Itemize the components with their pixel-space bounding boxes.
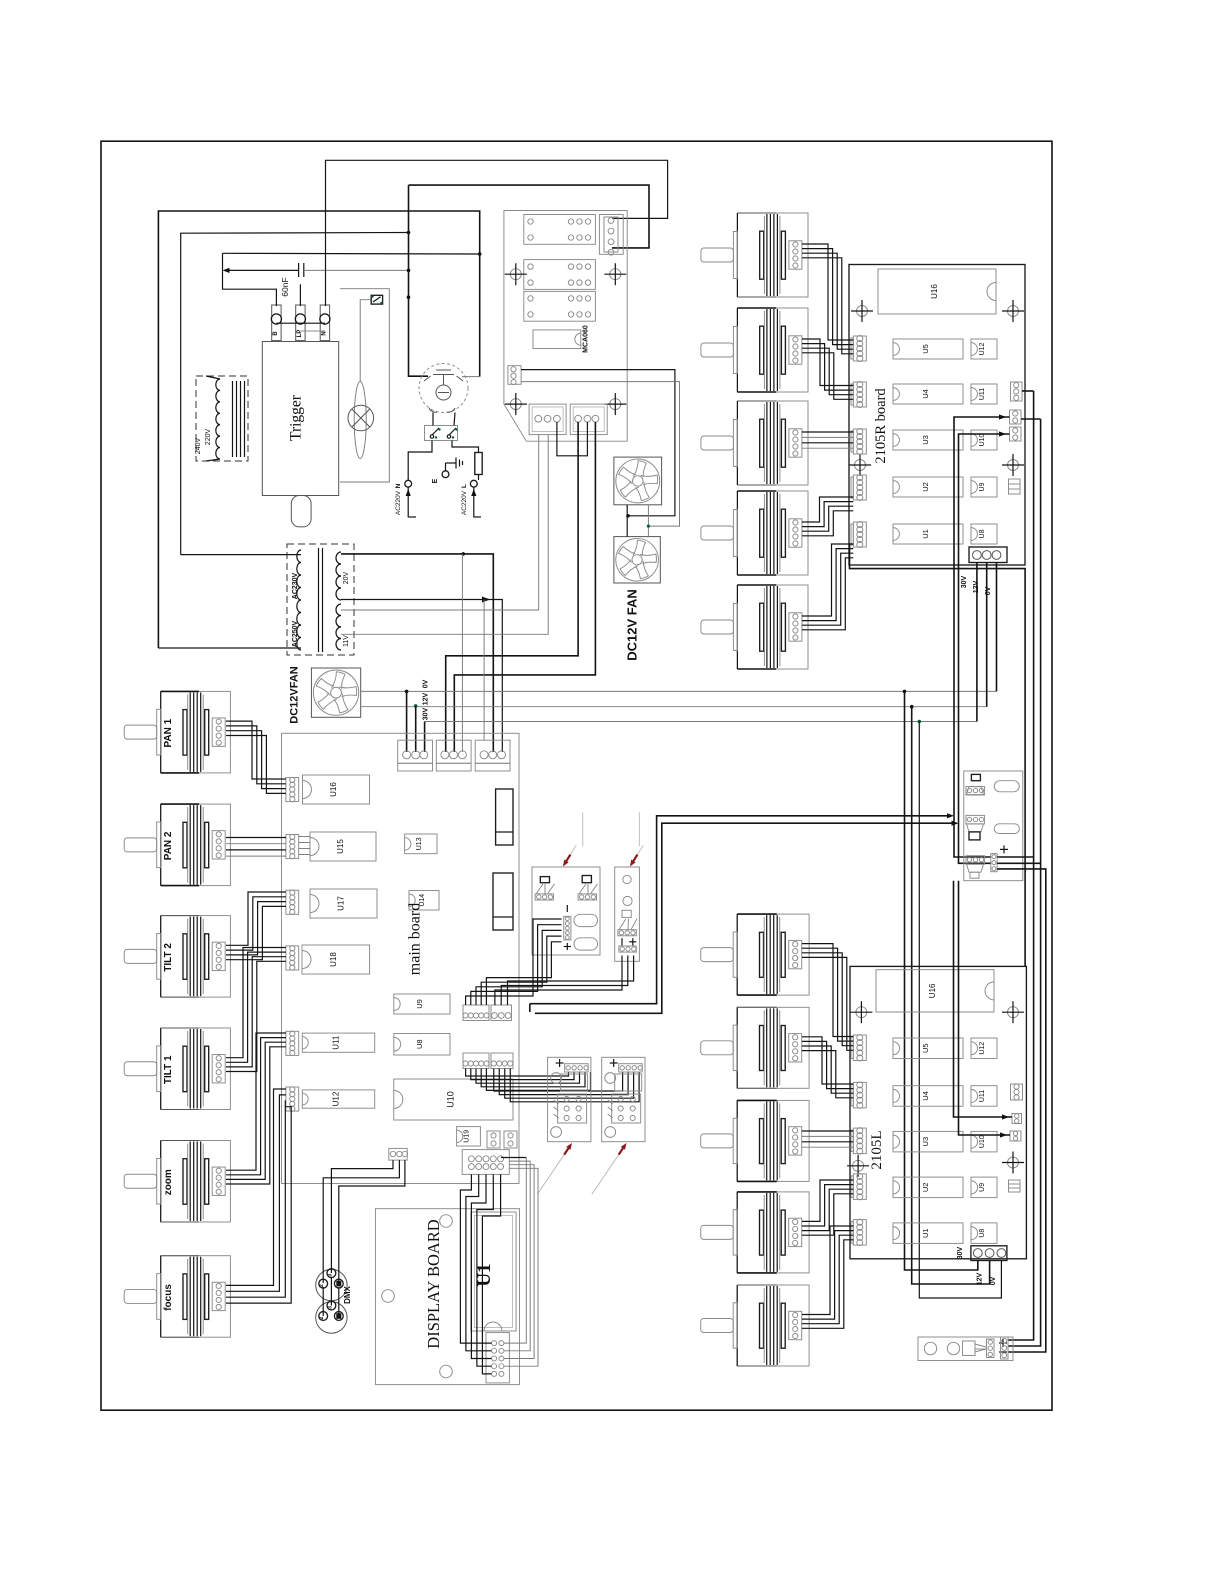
svg-text:2: 2 [319, 1316, 325, 1319]
svg-text:MCA060: MCA060 [583, 325, 590, 353]
svg-text:30V: 30V [961, 575, 968, 588]
svg-text:U10: U10 [979, 1135, 986, 1148]
svg-text:U5: U5 [921, 344, 930, 354]
svg-text:L: L [461, 484, 468, 488]
svg-text:U15: U15 [336, 839, 345, 854]
svg-text:240V: 240V [195, 438, 202, 455]
svg-text:PAN 1: PAN 1 [163, 718, 174, 747]
svg-text:U2: U2 [921, 1183, 930, 1193]
svg-text:U3: U3 [921, 435, 930, 445]
svg-text:AC230V: AC230V [292, 572, 299, 599]
svg-text:U4: U4 [921, 1091, 930, 1101]
svg-text:U3: U3 [921, 1137, 930, 1147]
svg-text:U8: U8 [979, 529, 986, 538]
svg-text:U11: U11 [979, 388, 986, 400]
svg-text:12V: 12V [977, 1272, 984, 1285]
svg-text:U16: U16 [329, 782, 338, 797]
svg-text:U9: U9 [979, 1183, 986, 1192]
svg-text:U10: U10 [979, 433, 986, 446]
svg-text:30V: 30V [423, 707, 430, 720]
svg-text:U16: U16 [930, 284, 939, 299]
svg-text:E: E [432, 478, 439, 483]
svg-text:2: 2 [319, 1284, 325, 1287]
svg-text:3: 3 [327, 1273, 333, 1276]
svg-text:DMX: DMX [343, 1285, 352, 1303]
svg-text:DISPLAY BOARD: DISPLAY BOARD [424, 1219, 443, 1349]
svg-text:main board: main board [407, 903, 424, 975]
svg-text:U10: U10 [445, 1091, 455, 1108]
svg-text:220V: 220V [205, 429, 212, 446]
svg-text:U8: U8 [415, 1039, 424, 1049]
svg-text:zoom: zoom [163, 1169, 174, 1195]
svg-text:U19: U19 [464, 1130, 471, 1143]
svg-text:U5: U5 [921, 1043, 930, 1053]
svg-text:Trigger: Trigger [288, 394, 305, 441]
svg-text:U12: U12 [332, 1091, 341, 1106]
svg-text:AC220V: AC220V [395, 490, 402, 515]
svg-text:30V: 30V [957, 1246, 964, 1259]
svg-text:U11: U11 [979, 1090, 986, 1102]
svg-text:U18: U18 [329, 952, 338, 967]
svg-text:0V: 0V [423, 679, 430, 688]
svg-text:PAN 2: PAN 2 [163, 831, 174, 860]
svg-text:N: N [395, 483, 402, 488]
svg-text:U8: U8 [979, 1229, 986, 1238]
svg-text:AC220V: AC220V [461, 490, 468, 515]
svg-text:N: N [321, 331, 327, 335]
svg-text:focus: focus [163, 1284, 174, 1311]
svg-text:TILT 1: TILT 1 [163, 1055, 174, 1084]
svg-text:60nF: 60nF [280, 277, 290, 296]
svg-text:DC12V FAN: DC12V FAN [625, 589, 640, 661]
svg-text:0V: 0V [990, 1276, 997, 1285]
svg-text:U12: U12 [979, 1042, 986, 1055]
svg-text:2105L: 2105L [869, 1130, 885, 1169]
svg-text:U9: U9 [979, 482, 986, 491]
svg-text:20V: 20V [343, 571, 350, 584]
svg-text:B: B [273, 331, 279, 336]
svg-text:TILT 2: TILT 2 [163, 943, 174, 972]
svg-text:U13: U13 [416, 837, 423, 850]
svg-text:U2: U2 [921, 482, 930, 492]
svg-text:2105R board: 2105R board [873, 388, 889, 464]
svg-text:U1: U1 [921, 1228, 930, 1238]
svg-text:U4: U4 [921, 389, 930, 399]
svg-text:U16: U16 [928, 983, 937, 998]
svg-text:11V: 11V [343, 635, 350, 647]
svg-text:U17: U17 [337, 896, 346, 911]
svg-text:U12: U12 [979, 342, 986, 355]
svg-text:12V: 12V [423, 692, 430, 705]
svg-text:U1: U1 [921, 529, 930, 539]
svg-text:DC12VFAN: DC12VFAN [289, 666, 301, 724]
svg-text:U9: U9 [415, 999, 424, 1009]
svg-text:U11: U11 [332, 1035, 341, 1050]
svg-text:3: 3 [327, 1306, 333, 1309]
svg-text:AC250V: AC250V [292, 620, 299, 647]
